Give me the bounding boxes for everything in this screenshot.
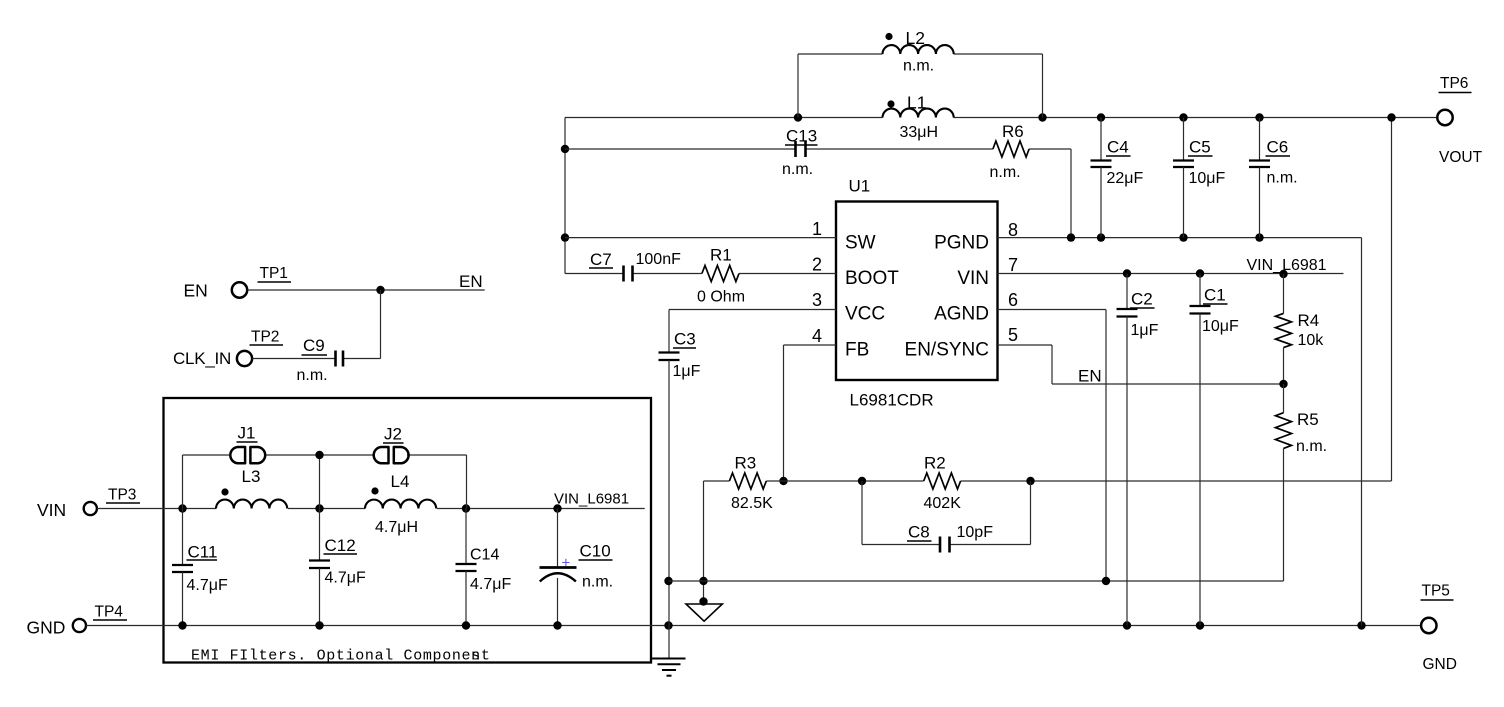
svg-text:1μF: 1μF [673,363,701,380]
junction GND rail at C10 [553,621,561,629]
junction VIN rail at C11 [178,504,186,512]
capacitor C10 electrolytic (n.m.) [540,509,614,626]
wire EN/SYNC (pin 5) [998,345,1284,384]
test point TP3 [84,487,140,516]
wire AGND row [669,580,1284,582]
test point TP5 [1421,583,1454,634]
svg-text:R2: R2 [924,454,946,473]
svg-text:+: + [562,555,571,572]
node EN (net stub label) [459,272,483,291]
wire EN: TP1 to net stub [247,289,484,291]
svg-text:1: 1 [812,219,822,239]
svg-text:TP4: TP4 [95,604,124,621]
junction VIN row at R4 [1279,270,1287,278]
svg-text:GND: GND [27,618,66,638]
svg-text:EN: EN [459,272,483,291]
svg-text:C5: C5 [1189,138,1211,157]
svg-text:FB: FB [845,340,869,361]
junction VIN rail at C12 [315,504,323,512]
junction at signal ground stem [699,597,707,605]
svg-text:EN/SYNC: EN/SYNC [905,340,989,361]
inductor L1 33uH [883,93,954,142]
svg-text:s: s [471,648,480,665]
svg-text:C8: C8 [908,523,930,542]
svg-text:EN: EN [1078,367,1102,386]
resistor R4 10k [1276,274,1325,384]
svg-text:L3: L3 [242,467,261,486]
capacitor C6 (n.m.) [1249,118,1298,238]
junction VOUT rail at feedback column [1387,113,1395,121]
svg-text:J2: J2 [384,425,402,444]
resistor R5 (n.m.) [1276,384,1328,581]
inductor L2 (n.m.) [883,28,954,75]
junction R2 right node [1026,477,1034,485]
svg-text:J1: J1 [238,424,256,443]
svg-text:TP2: TP2 [251,328,279,345]
pin 4 FB [812,326,869,361]
svg-text:AGND: AGND [934,304,989,325]
svg-text:VIN: VIN [957,268,989,289]
svg-text:C10: C10 [580,542,611,561]
junction jumper row at C12 column [315,451,323,459]
pin 8 PGND [934,220,1018,254]
svg-text:100nF: 100nF [636,251,682,268]
svg-text:VIN_L6981: VIN_L6981 [554,491,629,508]
svg-text:VOUT: VOUT [1439,149,1483,166]
svg-text:C7: C7 [590,250,612,269]
test point TP2 [237,328,283,366]
signal ground symbol (open triangle) [686,604,722,621]
pin 2 BOOT [812,255,899,290]
svg-text:3: 3 [812,290,822,310]
svg-text:7: 7 [1008,255,1018,275]
junction GND rail at C12 [315,621,323,629]
svg-text:L1: L1 [907,93,926,113]
junction SW node at C13 row [561,145,569,153]
wire SW node vertical (left) [564,118,566,274]
svg-text:33μH: 33μH [900,124,939,141]
wire PGND row (pin 8) [998,238,1362,626]
inductor L4 4.7uH [365,472,436,536]
svg-text:10μF: 10μF [1202,318,1239,335]
junction GND rail at C2 [1123,621,1131,629]
wire C8 parallel loop [862,481,1031,545]
junction VOUT rail at L2 right [1038,113,1046,121]
node VIN (input port label) [37,500,66,520]
junction GND rail at C3 ground column [664,621,672,629]
svg-text:R4: R4 [1298,311,1320,330]
svg-text:CLK_IN: CLK_IN [173,349,231,368]
svg-text:GND: GND [1423,656,1457,673]
resistor R6 (n.m.) [990,122,1030,181]
wire BOOT row (pin 2) [565,273,836,275]
wire pin 1 SW to SW node [565,237,836,239]
svg-text:n.m.: n.m. [1296,438,1327,455]
svg-text:0 Ohm: 0 Ohm [697,289,745,306]
jumper J2 [374,425,409,464]
junction VIN row at C1 [1196,269,1204,277]
junction AGND row at ground column [664,577,672,585]
svg-text:10k: 10k [1298,332,1325,349]
svg-text:4.7μF: 4.7μF [187,577,228,594]
pin 6 AGND [934,290,1018,325]
resistor R2 402K [924,454,962,513]
resistor R1 0 Ohm [697,246,745,306]
svg-text:10μF: 10μF [1189,170,1226,187]
junction GND rail at PGND column [1357,621,1365,629]
junction EN node [376,286,384,294]
svg-text:PGND: PGND [934,233,989,254]
svg-text:TP1: TP1 [260,265,288,282]
wire snubber row C13-R6 [565,149,1071,238]
svg-text:C6: C6 [1267,138,1289,157]
svg-text:82.5K: 82.5K [731,495,773,512]
junction PGND row at C6 [1255,233,1263,241]
svg-text:22μF: 22μF [1107,170,1144,187]
IC U1 L6981CDR [836,177,998,410]
capacitor C5 10uF [1173,118,1226,238]
svg-text:R5: R5 [1297,410,1319,429]
junction VIN rail at C10 [553,504,561,512]
wire AGND (pin 6) [998,310,1107,582]
wire EN vertical down to C9 [380,290,382,359]
wire jumper branch (J1/J2 row) [183,455,467,509]
junction EN row at R4/R5 [1279,380,1287,388]
wire FB row R3-R2 [704,118,1392,482]
wire L2 parallel branch [798,54,1043,118]
wire C3 to analog ground / earth [668,360,670,659]
svg-text:TP3: TP3 [108,487,136,504]
svg-text:C12: C12 [325,536,356,555]
inductor L3 [216,467,287,509]
junction GND rail at C11 [178,621,186,629]
node GND (input port label) [27,618,66,638]
junction VOUT rail at L2 left [794,113,802,121]
svg-text:4: 4 [812,326,822,346]
node CLK_IN (input port label) [173,349,231,368]
capacitor C4 22uF [1091,118,1144,238]
svg-text:n.m.: n.m. [990,164,1021,181]
pin 1 SW [812,219,876,254]
test point TP4 [73,604,127,633]
svg-text:4.7μF: 4.7μF [470,576,511,593]
capacitor C1 10uF [1190,274,1240,626]
earth ground symbol [652,659,686,676]
svg-text:n.m.: n.m. [903,58,934,75]
wire R3 left to signal ground [703,481,705,604]
test point TP6 [1437,75,1471,125]
EMI filter enclosure box [164,398,652,663]
jumper J1 [230,424,265,464]
node VIN_L6981 (EMI box side) [554,491,629,508]
svg-text:6: 6 [1008,290,1018,310]
capacitor C7 100nF [589,250,681,282]
junction AGND row at pin 6 column [1102,577,1110,585]
junction VOUT rail at C4 [1097,113,1105,121]
svg-text:R1: R1 [710,246,732,265]
svg-text:R3: R3 [735,454,757,473]
svg-text:C2: C2 [1131,290,1153,309]
svg-text:L4: L4 [391,472,410,491]
svg-text:C14: C14 [470,547,499,564]
svg-text:TP6: TP6 [1440,75,1468,92]
wire VIN row (pin 7) to VIN_L6981 stub [998,273,1344,275]
junction VIN rail at C14 [462,504,470,512]
svg-text:4.7μH: 4.7μH [375,519,418,536]
svg-text:C4: C4 [1107,138,1129,157]
wire GND rail (TP4 to TP5) [86,625,1421,627]
capacitor C9 (n.m.) [297,336,344,384]
node EN (at pin 5 net) [1078,367,1102,386]
svg-text:C13: C13 [786,127,817,146]
svg-text:n.m.: n.m. [582,574,613,591]
junction PGND row at C4 [1097,233,1105,241]
capacitor C12 4.7uF [309,509,366,626]
svg-text:10pF: 10pF [957,524,994,541]
junction FB node [779,477,787,485]
junction PGND row at R6 column [1067,233,1075,241]
node GND (output port label) [1423,656,1457,673]
svg-text:VIN: VIN [37,500,66,520]
wire VIN rail (TP3 to VIN_L6981) [97,508,645,510]
svg-text:TP5: TP5 [1422,583,1450,600]
test point TP1 [232,265,291,298]
junction AGND row at R3 ground column [699,577,707,585]
svg-text:402K: 402K [924,495,962,512]
junction R2 left node [858,477,866,485]
svg-text:BOOT: BOOT [845,268,899,289]
svg-text:R6: R6 [1002,122,1024,141]
capacitor C8 10pF [907,523,993,553]
svg-text:C11: C11 [188,543,218,562]
svg-text:SW: SW [845,233,876,254]
junction GND rail at C1 [1196,621,1204,629]
node VIN_L6981 (pin 7 side) [1247,257,1327,274]
svg-text:C9: C9 [303,336,325,355]
label: EMI FIlters. Optional Component [191,648,491,665]
junction VOUT rail at C6 [1255,113,1263,121]
junction PGND row at C5 [1179,233,1187,241]
capacitor C3 1uF [659,330,701,381]
capacitor C11 4.7uF [172,509,228,626]
wire FB (pin 4) down to divider [784,345,837,481]
junction VOUT rail at C5 [1179,113,1187,121]
capacitor C13 (n.m.) [782,127,818,179]
svg-text:C3: C3 [674,330,696,349]
svg-text:EN: EN [184,281,208,301]
wire CLK_IN: TP2 to C9 [252,358,380,360]
svg-text:5: 5 [1008,325,1018,345]
wire VCC (pin 3) to C3 [669,310,836,353]
svg-text:C1: C1 [1204,286,1226,305]
svg-text:U1: U1 [849,177,871,196]
svg-text:L6981CDR: L6981CDR [850,391,934,410]
svg-text:EMI FIlters. Optional Componen: EMI FIlters. Optional Component [191,648,491,665]
svg-text:n.m.: n.m. [1267,170,1298,187]
svg-text:n.m.: n.m. [297,367,328,384]
resistor R3 82.5K [729,454,773,513]
capacitor C14 4.7uF [456,509,512,626]
svg-text:2: 2 [812,255,822,275]
junction VIN row at C2 [1123,269,1131,277]
svg-text:1μF: 1μF [1131,322,1159,339]
svg-text:4.7μF: 4.7μF [325,570,366,587]
svg-text:VCC: VCC [845,304,885,325]
pin 3 VCC [812,290,885,325]
pin 5 EN/SYNC [905,325,1018,361]
node EN (input port label) [184,281,208,301]
pin 7 VIN [957,255,1018,289]
node VOUT (output port label) [1439,149,1483,166]
capacitor C2 1uF [1117,274,1159,626]
junction SW node at pin 1 row [561,233,569,241]
junction GND rail at C14 [462,621,470,629]
svg-text:n.m.: n.m. [782,161,813,178]
wire SW / VOUT rail through L1 [565,117,1437,119]
svg-text:L2: L2 [906,28,925,48]
